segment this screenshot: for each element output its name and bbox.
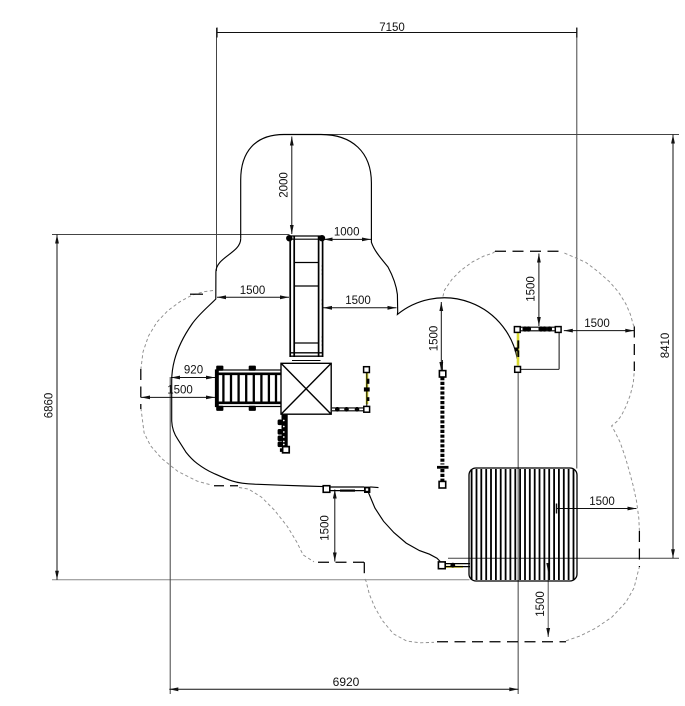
svg-text:1000: 1000 xyxy=(334,227,360,239)
svg-text:6860: 6860 xyxy=(44,393,56,419)
svg-text:1500: 1500 xyxy=(167,385,193,397)
svg-text:7150: 7150 xyxy=(379,22,405,34)
svg-text:1500: 1500 xyxy=(345,295,371,307)
svg-text:2000: 2000 xyxy=(279,172,291,198)
svg-text:8410: 8410 xyxy=(660,333,672,359)
svg-text:1500: 1500 xyxy=(584,318,610,330)
svg-text:1500: 1500 xyxy=(589,496,615,508)
svg-text:920: 920 xyxy=(184,365,203,377)
svg-text:1500: 1500 xyxy=(428,326,440,352)
svg-text:1500: 1500 xyxy=(535,591,547,617)
svg-text:1500: 1500 xyxy=(526,276,538,302)
svg-text:6920: 6920 xyxy=(333,675,360,689)
svg-text:1500: 1500 xyxy=(320,515,332,541)
svg-text:1500: 1500 xyxy=(240,285,266,297)
